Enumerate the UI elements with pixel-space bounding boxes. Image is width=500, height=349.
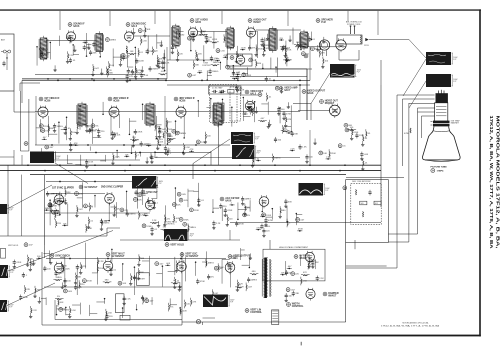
svg-text:MOTOROLA MODELS 17F12, A, B, B: MOTOROLA MODELS 17F12, A, B, BA, <box>495 115 500 248</box>
ground <box>61 286 64 289</box>
wire <box>96 262 98 285</box>
svg-text:1.5K: 1.5K <box>230 67 235 69</box>
node junction <box>157 78 159 80</box>
value label .01 <box>312 39 316 41</box>
wire <box>69 35 71 44</box>
wire <box>279 206 281 215</box>
resistor R27 <box>196 52 197 57</box>
value label 100 <box>67 281 71 283</box>
value label 47K <box>72 39 76 41</box>
svg-text:6V6GT: 6V6GT <box>253 21 261 24</box>
node junction <box>156 185 158 187</box>
ground <box>196 57 199 60</box>
wire <box>104 220 109 222</box>
wire <box>168 303 170 312</box>
resistor R101 <box>97 267 98 272</box>
power transformer box <box>337 35 362 44</box>
node junction <box>203 60 205 62</box>
tube label callout SPEAKER <box>316 18 333 24</box>
resistor R62 <box>363 161 364 166</box>
capacitor C12 <box>157 60 160 66</box>
value label 1.5K <box>107 313 112 315</box>
terminal node <box>311 47 315 51</box>
wire <box>215 60 220 62</box>
value label 680 <box>142 195 146 197</box>
svg-text:10K: 10K <box>122 283 126 285</box>
value label 100 <box>207 135 211 137</box>
ground <box>132 31 135 34</box>
capacitor C44 <box>85 159 88 165</box>
wire <box>39 119 41 132</box>
tube label callout AUDIO OUT <box>248 18 267 24</box>
node junction <box>94 181 96 183</box>
wire <box>338 50 340 60</box>
value label 100 <box>72 132 76 134</box>
node junction <box>59 181 61 183</box>
node junction <box>242 49 244 51</box>
wire <box>156 124 161 126</box>
value label 120K <box>99 268 105 270</box>
wire <box>7 185 52 209</box>
svg-text:47K: 47K <box>78 287 82 289</box>
resistor R100 <box>175 279 176 284</box>
wire <box>168 270 175 272</box>
node junction <box>79 105 81 107</box>
value label 470K <box>298 229 304 231</box>
wire <box>36 159 140 161</box>
IF transformer T5 <box>268 26 277 52</box>
value label .01 <box>265 48 269 50</box>
wire <box>65 198 67 201</box>
capacitor C88 <box>227 262 230 268</box>
ground <box>29 315 32 318</box>
svg-text:5%: 5% <box>170 307 173 309</box>
value label 220 <box>266 231 270 233</box>
border frame bottom <box>0 335 481 337</box>
wire <box>146 157 148 160</box>
resistor R55 <box>260 121 265 122</box>
value label .005 <box>364 154 369 156</box>
wire <box>230 222 381 224</box>
svg-text:47K: 47K <box>44 49 48 51</box>
value label .005 <box>166 263 171 265</box>
ground <box>282 117 285 120</box>
capacitor C71 <box>241 196 244 202</box>
wire <box>174 277 176 286</box>
wire <box>133 28 135 31</box>
ground <box>235 60 238 63</box>
ground <box>74 281 77 284</box>
wire <box>178 30 180 39</box>
value label 47K <box>303 272 307 274</box>
wire <box>161 266 163 287</box>
resistor R99 <box>105 282 110 283</box>
resistor R47 <box>169 138 174 139</box>
wire <box>54 209 59 211</box>
node junction <box>69 258 71 260</box>
wire <box>219 91 224 93</box>
wire <box>348 128 357 130</box>
node junction <box>139 152 141 154</box>
node junction <box>131 152 133 154</box>
node junction <box>309 164 311 166</box>
trap label <box>212 86 223 89</box>
tube label callout 1ST AUDIO <box>190 18 208 24</box>
wire <box>249 31 251 48</box>
svg-text:10K: 10K <box>63 223 67 225</box>
wire <box>13 91 15 112</box>
value label 470K <box>268 220 274 222</box>
value label 2.2K <box>326 157 331 159</box>
svg-text:5%: 5% <box>247 215 250 217</box>
value label .1 <box>52 205 55 207</box>
wire <box>112 48 114 66</box>
speaker <box>319 40 329 56</box>
svg-text:10K: 10K <box>159 142 163 144</box>
value label 100 <box>208 37 212 39</box>
wire <box>41 252 43 325</box>
capacitor C46 <box>164 146 167 152</box>
resistor R81 <box>152 222 157 223</box>
wire <box>286 207 288 222</box>
waveform photo W2 <box>132 176 164 189</box>
capacitor C9 <box>122 55 125 61</box>
wire <box>177 49 179 58</box>
terminal node <box>216 49 220 53</box>
svg-text:47K: 47K <box>231 265 235 267</box>
svg-text:CONTROL: CONTROL <box>250 311 262 314</box>
wire <box>202 322 204 325</box>
tube label callout VERT LIN <box>245 308 262 314</box>
svg-text:10K: 10K <box>58 273 62 275</box>
resistor R71 <box>114 207 115 212</box>
capacitor C28 <box>236 75 239 81</box>
wire <box>46 40 96 42</box>
value label .047 <box>288 295 293 297</box>
wire <box>171 282 180 284</box>
wire <box>307 261 309 270</box>
wire <box>179 308 181 314</box>
svg-text:1.5K: 1.5K <box>144 75 149 77</box>
wire <box>100 219 102 228</box>
node junction <box>129 134 131 136</box>
value label 10K <box>58 273 62 275</box>
resistor R64 <box>267 95 268 100</box>
node junction <box>272 208 274 210</box>
wire <box>281 130 290 132</box>
terminal node <box>249 58 253 62</box>
wire <box>64 188 66 197</box>
svg-text:2.2K: 2.2K <box>290 148 295 150</box>
value label .01 <box>72 60 76 62</box>
capacitor C1 <box>235 86 238 92</box>
wire <box>272 154 274 163</box>
value label 100 <box>47 268 51 270</box>
wire <box>187 223 189 232</box>
value label 2.2K <box>162 132 167 134</box>
node junction <box>27 164 29 166</box>
svg-text:470K: 470K <box>212 39 218 41</box>
capacitor C58 <box>220 90 226 93</box>
wire <box>142 260 149 262</box>
value label 2.2K <box>319 278 324 280</box>
node junction <box>46 209 48 211</box>
value label .01 <box>90 221 94 223</box>
wire <box>146 145 151 147</box>
ground <box>285 58 288 61</box>
value label 2.2K <box>93 129 98 131</box>
resistor R105 <box>63 267 64 272</box>
value label .047 <box>248 286 253 288</box>
capacitor C47 <box>274 137 277 143</box>
ground <box>113 213 116 216</box>
capacitor C8 <box>89 50 92 56</box>
ground <box>100 72 103 75</box>
svg-text:470K: 470K <box>23 297 29 299</box>
node junction <box>197 100 199 102</box>
value label 120K <box>238 55 244 57</box>
node junction <box>126 191 128 193</box>
coil L1 <box>360 36 363 44</box>
value label 100 <box>147 144 151 146</box>
svg-text:6AH6: 6AH6 <box>307 92 314 95</box>
value label 33K <box>294 133 298 135</box>
wire <box>369 39 409 41</box>
wire <box>61 129 67 131</box>
value label .047 <box>287 266 292 268</box>
wire <box>166 120 168 144</box>
node junction <box>86 55 88 57</box>
resistor R85 <box>165 217 166 222</box>
wire <box>65 307 67 315</box>
node junction <box>300 49 302 51</box>
wire <box>328 149 330 158</box>
ground <box>313 141 316 144</box>
capacitor C68 <box>224 208 227 214</box>
wire <box>7 165 9 236</box>
resistor R94 <box>173 283 178 284</box>
ground <box>247 151 250 154</box>
svg-text:470K: 470K <box>404 133 410 135</box>
svg-text:1MEG: 1MEG <box>103 223 109 225</box>
wire <box>75 164 80 166</box>
node junction <box>87 144 89 146</box>
node junction <box>282 274 284 276</box>
svg-text:5%: 5% <box>45 130 48 132</box>
capacitor C36 <box>88 128 91 134</box>
wire <box>131 146 133 153</box>
wire <box>137 48 139 57</box>
resistor R37 <box>193 63 194 68</box>
wire <box>84 243 86 269</box>
yoke network outer box <box>346 180 389 243</box>
wire <box>299 85 301 111</box>
capacitor C43 <box>158 126 161 132</box>
value label 100 <box>281 109 285 111</box>
node junction <box>231 106 233 108</box>
value label 470K <box>239 149 245 151</box>
resistor R8 <box>109 63 110 68</box>
node junction <box>288 268 290 270</box>
capacitor C24 <box>308 36 311 42</box>
terminal node <box>138 193 142 197</box>
wire <box>231 107 233 126</box>
value label 47K <box>73 145 77 147</box>
node junction <box>122 307 124 309</box>
value label 1MEG <box>212 71 218 73</box>
node junction <box>123 144 125 146</box>
value label 2.2K <box>201 142 206 144</box>
value label 47K <box>192 302 196 304</box>
svg-text:47K: 47K <box>192 302 196 304</box>
resistor R93 <box>139 257 140 262</box>
wire <box>254 102 256 122</box>
terminal node <box>40 47 44 51</box>
svg-text:47K: 47K <box>82 266 86 268</box>
value label 120K <box>115 157 121 159</box>
terminal node <box>118 281 122 285</box>
wire <box>271 209 273 220</box>
resistor R57 <box>273 156 274 161</box>
wire <box>182 321 346 323</box>
wire <box>116 202 118 218</box>
rf box corner <box>20 83 40 91</box>
value label 220 <box>166 218 170 220</box>
value label .1 <box>230 203 233 205</box>
IF transformer T3 <box>171 24 180 48</box>
resistor R21 <box>285 48 286 53</box>
svg-text:120K: 120K <box>238 55 244 57</box>
caption text line 2 <box>381 325 440 328</box>
tube label callout VIDEO AMP <box>279 86 298 92</box>
wire <box>69 306 71 315</box>
ground <box>350 137 353 140</box>
svg-text:10K: 10K <box>177 204 181 206</box>
wire <box>35 110 300 112</box>
wire <box>297 42 299 51</box>
svg-text:33K: 33K <box>93 52 97 54</box>
value label 220 <box>168 122 172 124</box>
ground <box>87 46 90 49</box>
svg-text:17K12, A, B, BA, W, WA, 17T7,: 17K12, A, B, BA, W, WA, 17T7, A, 17T8, A… <box>489 116 494 250</box>
wire <box>93 136 102 138</box>
value label 100 <box>178 264 182 266</box>
value label .01 <box>154 229 158 231</box>
wire <box>269 240 271 249</box>
value label .01 <box>130 71 134 73</box>
ground <box>284 299 287 302</box>
svg-text:5%: 5% <box>247 208 250 210</box>
wire <box>155 116 157 138</box>
resistor R29 <box>298 44 299 49</box>
node junction <box>183 137 185 139</box>
wire <box>133 267 135 295</box>
wire <box>181 252 183 325</box>
resistor R10 <box>108 71 109 76</box>
resistor R77 <box>139 213 140 218</box>
value label 47K <box>201 32 205 34</box>
tube label callout VERT OSC <box>180 252 199 258</box>
value label 220 <box>132 137 136 139</box>
wire <box>96 264 98 273</box>
wire <box>339 59 359 61</box>
value label 680 <box>299 46 303 48</box>
wire <box>45 297 47 305</box>
value label 220 <box>109 316 113 318</box>
svg-text:47K: 47K <box>252 48 256 50</box>
node junction <box>261 211 263 213</box>
wire <box>310 104 312 121</box>
waveform photo W4 <box>232 145 262 159</box>
terminal node <box>84 204 88 208</box>
node junction <box>43 138 45 140</box>
wire <box>403 98 435 100</box>
wire <box>30 306 32 315</box>
node junction <box>220 62 222 64</box>
ground <box>160 43 163 46</box>
wire <box>287 11 289 26</box>
node junction <box>237 80 239 82</box>
value label 680 <box>63 266 67 268</box>
svg-text:1MEG: 1MEG <box>265 45 271 47</box>
wire <box>176 31 183 33</box>
wire <box>30 174 346 176</box>
ground <box>85 129 88 132</box>
wire <box>44 253 50 255</box>
svg-text:33K: 33K <box>37 290 41 292</box>
ground <box>204 140 207 143</box>
node junction <box>94 195 96 197</box>
terminal node <box>121 53 125 57</box>
ground <box>149 155 152 158</box>
capacitor C16 <box>126 74 129 80</box>
value label 1MEG <box>129 214 135 216</box>
ground <box>321 65 324 68</box>
wire <box>256 29 301 31</box>
svg-text:6AU6: 6AU6 <box>73 25 80 28</box>
wire <box>55 319 182 321</box>
tube V2 <box>124 30 133 43</box>
wire <box>137 268 139 277</box>
wire <box>129 120 136 122</box>
value label .005 <box>83 41 88 43</box>
wire <box>55 297 64 299</box>
wire <box>108 61 110 70</box>
tone box <box>209 86 242 94</box>
svg-text:10K: 10K <box>146 29 150 31</box>
value label 680 <box>109 73 113 75</box>
value label .01 <box>174 47 178 49</box>
svg-text:33K: 33K <box>55 211 59 213</box>
value label .005 <box>182 194 187 196</box>
svg-text:120K: 120K <box>241 47 247 49</box>
terminal node <box>262 213 266 217</box>
IF transformer T2 <box>95 31 104 53</box>
svg-text:1MEG: 1MEG <box>57 126 63 128</box>
value label 1.5K <box>284 48 289 50</box>
wire <box>232 78 237 80</box>
vert lin box <box>116 294 124 313</box>
wire <box>190 298 192 307</box>
ground <box>158 135 161 138</box>
svg-text:470K: 470K <box>200 281 206 283</box>
svg-text:4.5 MC TRAP: 4.5 MC TRAP <box>212 86 223 89</box>
capacitor C96 <box>285 270 288 276</box>
node junction <box>91 78 93 80</box>
ground <box>277 112 280 115</box>
wire <box>275 67 277 73</box>
wire <box>41 151 49 153</box>
